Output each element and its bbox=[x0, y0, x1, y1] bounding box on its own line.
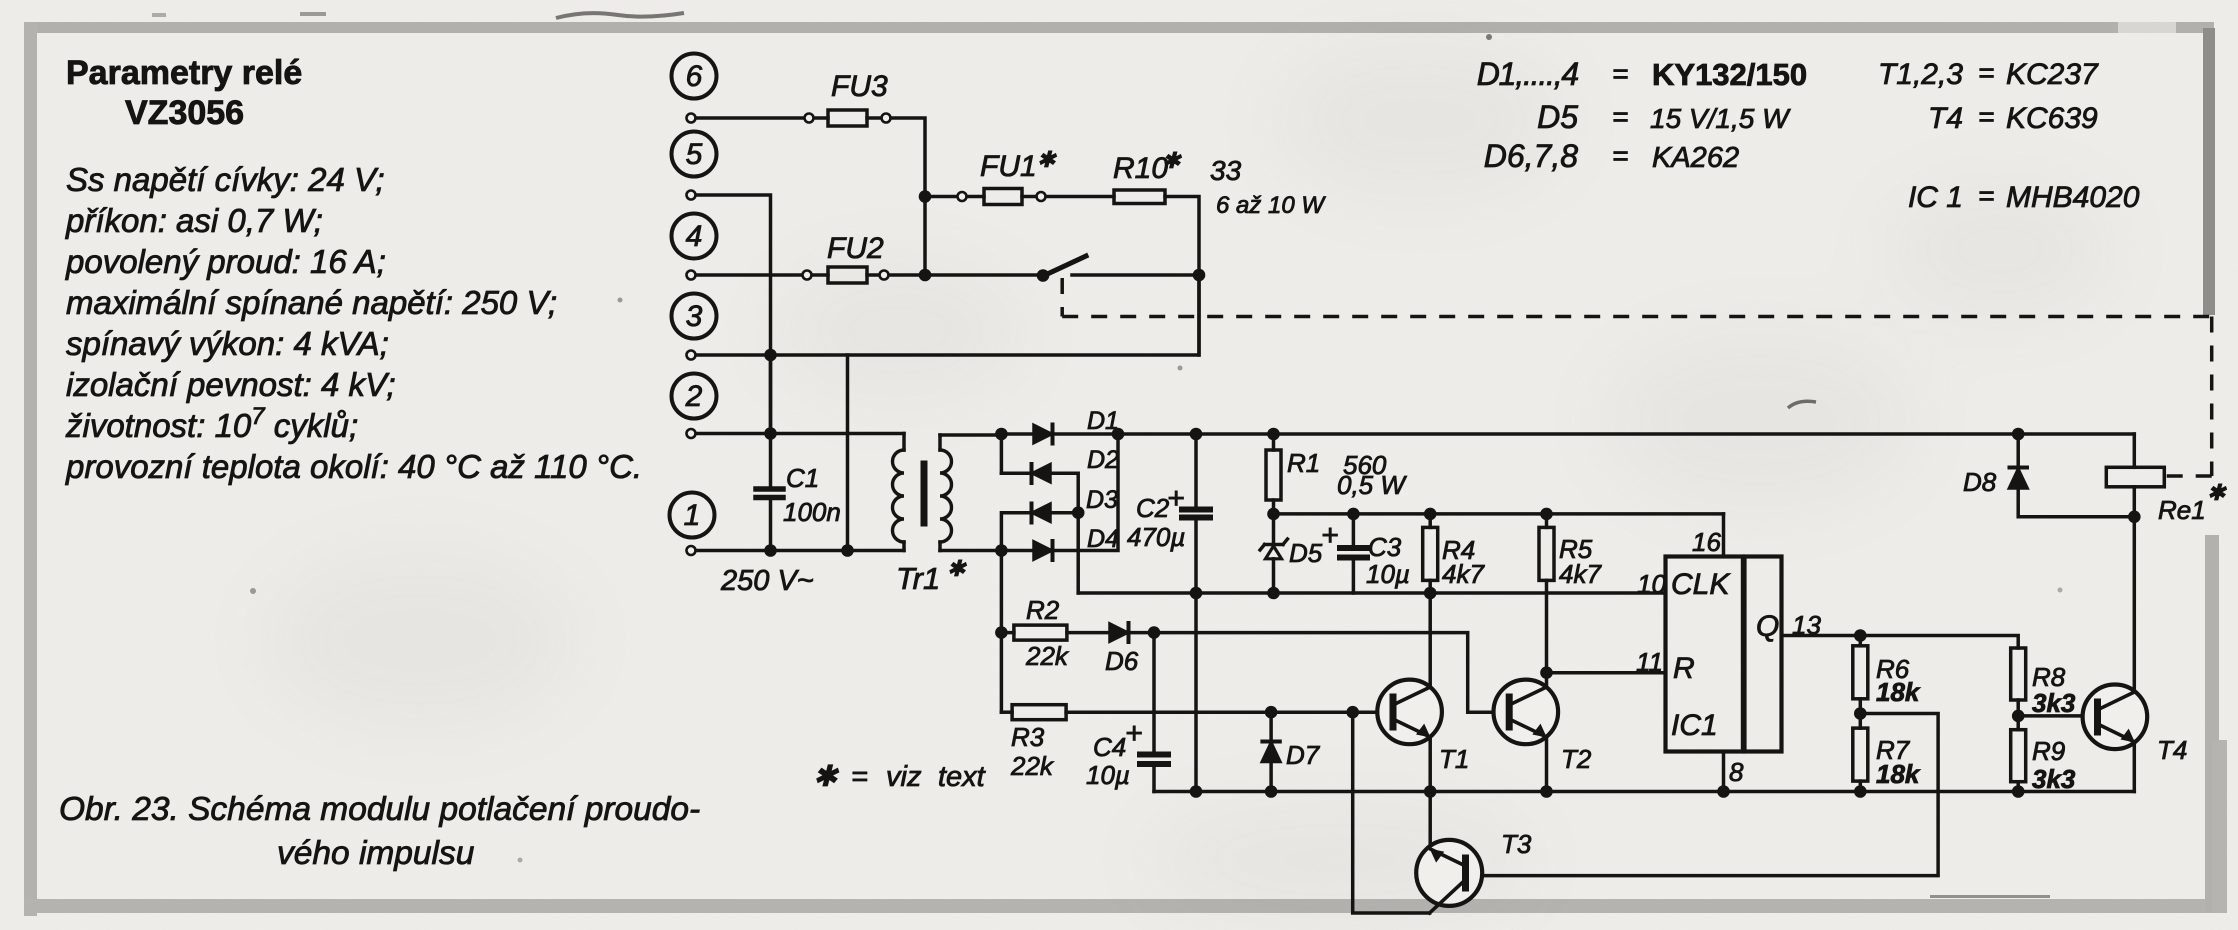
wire C2 node down to ground rail bbox=[1194, 593, 1198, 792]
svg-text:C2: C2 bbox=[1136, 493, 1170, 523]
wire FU3 to node, down to FU2 line bbox=[891, 118, 925, 275]
pin 6 bbox=[687, 114, 696, 123]
svg-text:izolační pevnost: 4 kV;: izolační pevnost: 4 kV; bbox=[66, 366, 396, 403]
IC1 Q output box bbox=[1745, 557, 1782, 752]
terminal 4 bbox=[672, 214, 717, 259]
transformer Tr1 primary bbox=[902, 434, 906, 551]
node: R4 bottom / CLK bbox=[1424, 587, 1437, 600]
svg-text:=: = bbox=[1978, 180, 1994, 211]
zener diode D5 bbox=[1272, 514, 1276, 544]
wire bridge minus node down to CLK rail bbox=[1076, 513, 1080, 593]
wire T1 emitter to ground and T3 emitter bbox=[1428, 737, 1432, 848]
wire D6 to T2 base corner bbox=[1130, 633, 1506, 713]
node: R6/R7 bbox=[1854, 707, 1867, 720]
node: FU2/switch line junction bbox=[919, 269, 932, 282]
dashed link switch to relay bbox=[1062, 278, 2212, 476]
svg-text:18k: 18k bbox=[1876, 759, 1921, 789]
node: T1 emitter ground bbox=[1424, 785, 1437, 798]
wire pin2 to transformer primary bbox=[696, 432, 904, 436]
transformer Tr1 secondary bbox=[938, 435, 942, 551]
svg-text:MHB4020: MHB4020 bbox=[2006, 181, 2140, 214]
svg-text:FU2: FU2 bbox=[827, 232, 884, 265]
svg-text:D3: D3 bbox=[1086, 486, 1118, 514]
svg-text:KA262: KA262 bbox=[1652, 142, 1739, 174]
svg-text:10: 10 bbox=[1637, 569, 1666, 599]
svg-text:FU3: FU3 bbox=[831, 70, 888, 103]
node: D2/D3 anodes bbox=[1072, 506, 1085, 519]
resistor R5 bbox=[1545, 514, 1549, 528]
node A secondary top bbox=[995, 428, 1008, 441]
svg-text:Obr. 23. Schéma modulu potlače: Obr. 23. Schéma modulu potlačení proudo- bbox=[59, 791, 700, 828]
svg-text:provozní teplota okolí: 40 °C: provozní teplota okolí: 40 °C až 110 °C. bbox=[65, 448, 642, 485]
pin 2 bbox=[687, 429, 696, 438]
scan frame right bar bbox=[2203, 28, 2215, 315]
transistor T3 (mirrored) bbox=[1416, 840, 1482, 906]
IC1 main box bbox=[1666, 557, 1743, 752]
svg-text:D8: D8 bbox=[1963, 467, 1997, 497]
ground rail bbox=[1154, 790, 2134, 794]
svg-text:4k7: 4k7 bbox=[1442, 559, 1485, 589]
dashed wire horizontal bbox=[1062, 315, 2212, 319]
Q output line pin 13 bbox=[1782, 636, 2019, 649]
switch blade bbox=[1043, 256, 1086, 276]
svg-text:VZ3056: VZ3056 bbox=[125, 94, 244, 132]
svg-text:KY132/150: KY132/150 bbox=[1652, 57, 1807, 92]
svg-text:FU1: FU1 bbox=[980, 150, 1037, 183]
capacitor C1 leads bbox=[769, 355, 773, 551]
diode D8 bbox=[2016, 434, 2020, 466]
svg-text:vého impulsu: vého impulsu bbox=[277, 835, 474, 872]
wire relay to T4 collector bbox=[2133, 517, 2137, 692]
+15V rail bbox=[1274, 512, 1724, 516]
wire secondary bottom to node B bbox=[940, 549, 1001, 553]
capacitor C1 plates bbox=[756, 486, 783, 492]
transistor T1 bbox=[1377, 680, 1442, 745]
node: D5 bottom bbox=[1267, 587, 1280, 600]
transistor T4 bbox=[2083, 685, 2148, 750]
wire R4 bottom down to T1 collector bbox=[1428, 593, 1432, 687]
svg-text:T1,2,3: T1,2,3 bbox=[1878, 58, 1963, 91]
wire pin1 to transformer primary bottom bbox=[696, 549, 904, 553]
diode D6 bbox=[1110, 624, 1127, 641]
svg-text:T2: T2 bbox=[1561, 744, 1592, 774]
svg-text:R3: R3 bbox=[1011, 722, 1045, 752]
capacitor C3 leads bbox=[1352, 514, 1356, 593]
diode D7 bbox=[1269, 712, 1273, 740]
node: C2 vert / ground bbox=[1190, 785, 1203, 798]
svg-text:Re1: Re1 bbox=[2158, 495, 2206, 525]
svg-text:3k3: 3k3 bbox=[2032, 764, 2076, 794]
svg-text:T1: T1 bbox=[1439, 744, 1469, 774]
resistor R2 bbox=[1001, 631, 1014, 635]
node: D7 bottom bbox=[1265, 785, 1278, 798]
svg-text:3: 3 bbox=[686, 300, 703, 333]
component list top right bbox=[1477, 56, 2140, 214]
pin 16 wire bbox=[1722, 514, 1726, 557]
svg-text:5: 5 bbox=[686, 138, 703, 171]
svg-text:C1: C1 bbox=[786, 463, 819, 493]
node: R1/D5 bbox=[1267, 508, 1280, 521]
wire pin6 to FU3 bbox=[696, 116, 805, 120]
dashed wire down right edge bbox=[2210, 317, 2214, 477]
terminal 6 bbox=[672, 54, 717, 99]
transformer Tr1 core bbox=[921, 464, 928, 523]
node: pin2 line / C1 top bbox=[764, 427, 777, 440]
svg-text:10µ: 10µ bbox=[1086, 760, 1130, 790]
node: pin5 line on y355 bbox=[764, 349, 777, 362]
resistor R10 bbox=[1114, 190, 1165, 204]
node: D7 top bbox=[1265, 706, 1278, 719]
caption Obr. 23 bbox=[59, 791, 700, 872]
node: D6 out / C4 top bbox=[1148, 626, 1161, 639]
node: switch pivot bbox=[1037, 269, 1050, 282]
svg-text:6: 6 bbox=[686, 60, 703, 93]
svg-text:T4: T4 bbox=[2157, 735, 2187, 765]
svg-text:22k: 22k bbox=[1025, 641, 1070, 671]
svg-text:D7: D7 bbox=[1286, 740, 1321, 770]
svg-text:+: + bbox=[1321, 519, 1339, 552]
svg-text:T4: T4 bbox=[1928, 102, 1963, 135]
svg-text:11: 11 bbox=[1636, 647, 1663, 677]
wire T3 branch: down from R3 line, right to T3 collector bbox=[1353, 712, 1430, 913]
svg-text:=: = bbox=[1612, 140, 1628, 171]
resistor R3 bbox=[1001, 710, 1012, 714]
svg-text:4: 4 bbox=[686, 220, 703, 253]
node: R4 top bbox=[1424, 508, 1437, 521]
svg-text:R10: R10 bbox=[1113, 152, 1168, 185]
node: switch return right bbox=[1193, 269, 1206, 282]
svg-text:C4: C4 bbox=[1093, 732, 1126, 762]
pin 1 bbox=[687, 546, 696, 555]
pin 4 bbox=[687, 271, 696, 280]
svg-text:+: + bbox=[1125, 717, 1143, 750]
terminal 5 bbox=[672, 132, 717, 177]
svg-text:15 V/1,5 W: 15 V/1,5 W bbox=[1650, 103, 1791, 134]
scan frame top bar bbox=[24, 22, 2214, 33]
node: R2 left bbox=[995, 626, 1008, 639]
svg-text:maximální spínané napětí: 250: maximální spínané napětí: 250 V; bbox=[66, 284, 557, 321]
diode D1 bbox=[1001, 432, 1034, 436]
svg-text:✱: ✱ bbox=[2207, 480, 2227, 505]
wire pin4 to FU2 bbox=[696, 273, 802, 277]
svg-text:✱: ✱ bbox=[1037, 147, 1057, 172]
wire secondary top to node A bbox=[940, 433, 1001, 437]
svg-text:4k7: 4k7 bbox=[1559, 559, 1602, 589]
dashed wire to relay bbox=[2165, 474, 2212, 478]
node: FU3/FU1 junction bbox=[919, 190, 932, 203]
svg-text:KC639: KC639 bbox=[2006, 102, 2098, 135]
wire node A down to D2 bbox=[1000, 434, 1004, 473]
wire R8/R9 node to T4 base bbox=[2018, 714, 2091, 718]
wire FU1 branch bbox=[925, 195, 957, 199]
wire R3 to T1 base bbox=[1066, 710, 1390, 714]
node: C1 bottom bbox=[764, 544, 777, 557]
CLK rail (bridge minus to IC pin 10) bbox=[1078, 591, 1665, 595]
wire R pin 11 bbox=[1547, 671, 1666, 675]
svg-text:životnost: 107 cyklů;: životnost: 107 cyklů; bbox=[65, 403, 358, 444]
svg-text:C3: C3 bbox=[1368, 532, 1402, 562]
svg-text:470µ: 470µ bbox=[1127, 522, 1185, 552]
terminal 1 bbox=[670, 493, 715, 538]
node: R1 top bbox=[1267, 428, 1280, 441]
svg-text:KC237: KC237 bbox=[2006, 58, 2099, 91]
svg-text:povolený proud: 16 A;: povolený proud: 16 A; bbox=[65, 243, 386, 280]
fuse FU1 bbox=[958, 192, 967, 201]
svg-text:R2: R2 bbox=[1026, 595, 1060, 625]
pin 8 wire bbox=[1722, 752, 1726, 792]
resistor R9 bbox=[2011, 730, 2026, 782]
svg-text:D5: D5 bbox=[1289, 538, 1323, 568]
svg-text:33: 33 bbox=[1210, 155, 1242, 186]
node: D8/relay/T4 collector bbox=[2128, 511, 2141, 524]
scan pen hook artifact bbox=[1788, 401, 1816, 408]
wire switch return: down, left to pin3 bbox=[696, 275, 1199, 355]
terminal 2 bbox=[672, 374, 717, 419]
svg-text:Q: Q bbox=[1756, 610, 1779, 643]
wire C4 bottom to ground rail bbox=[1152, 767, 1156, 792]
svg-text:T3: T3 bbox=[1501, 829, 1532, 859]
svg-text:18k: 18k bbox=[1876, 677, 1921, 707]
top rail from D1 to relay corner bbox=[1054, 432, 2134, 436]
svg-text:D2: D2 bbox=[1087, 446, 1119, 474]
svg-text:250 V~: 250 V~ bbox=[720, 565, 814, 597]
wire FU1 to R10 bbox=[1046, 195, 1114, 199]
svg-text:=: = bbox=[1612, 101, 1628, 132]
wire R6/R7 node to T3 base bbox=[1468, 714, 1938, 876]
svg-text:1: 1 bbox=[684, 499, 701, 532]
svg-text:16: 16 bbox=[1692, 527, 1721, 557]
node: D1/D4 cathodes bbox=[1112, 428, 1125, 441]
wire R10 right, corner down to switch line bbox=[1165, 197, 1199, 356]
resistor R1 bbox=[1272, 434, 1276, 450]
svg-text:=: = bbox=[1612, 58, 1628, 89]
svg-text:100n: 100n bbox=[783, 497, 841, 527]
node: C3 top bbox=[1347, 508, 1360, 521]
wire pin5 right and down bbox=[696, 195, 771, 429]
resistor R6 bbox=[1859, 636, 1863, 646]
wire T4 emitter to ground rail end bbox=[2133, 742, 2137, 792]
svg-text:D4: D4 bbox=[1087, 525, 1119, 553]
svg-text:spínavý výkon: 4 kVA;: spínavý výkon: 4 kVA; bbox=[66, 325, 389, 362]
svg-text:D1: D1 bbox=[1087, 407, 1119, 435]
pin 3 bbox=[687, 351, 696, 360]
node: R9 bottom bbox=[2012, 785, 2025, 798]
node: D8 top bbox=[2012, 428, 2025, 441]
svg-text:CLK: CLK bbox=[1671, 568, 1731, 601]
svg-text:R9: R9 bbox=[2032, 736, 2065, 766]
svg-text:13: 13 bbox=[1792, 610, 1821, 640]
scan frame bottom bar bbox=[24, 899, 2214, 913]
node: R8/R9 bbox=[2012, 710, 2025, 723]
scan specks bbox=[152, 12, 2063, 863]
terminal 3 bbox=[672, 294, 717, 339]
dashed wire from switch down bbox=[1060, 278, 1064, 317]
svg-text:D5: D5 bbox=[1537, 99, 1578, 135]
wire FU2 to switch bbox=[889, 273, 1043, 277]
svg-text:příkon: asi 0,7 W;: příkon: asi 0,7 W; bbox=[65, 202, 323, 239]
svg-text:10µ: 10µ bbox=[1366, 559, 1410, 589]
transistor T2 bbox=[1494, 680, 1559, 745]
fuse FU2 bbox=[803, 271, 812, 280]
svg-text:0,5 W: 0,5 W bbox=[1337, 470, 1407, 500]
svg-text:=: = bbox=[1978, 57, 1994, 88]
svg-text:Ss napětí cívky: 24 V;: Ss napětí cívky: 24 V; bbox=[66, 161, 385, 198]
diode D4 bbox=[1001, 549, 1034, 553]
svg-text:=: = bbox=[1978, 101, 1994, 132]
node: T3 branch bbox=[1346, 706, 1359, 719]
diode D3 bbox=[1001, 513, 1030, 551]
resistor R4 bbox=[1428, 514, 1432, 528]
resistor R8 bbox=[2011, 648, 2026, 700]
wire R5 down to T2 collector node bbox=[1545, 580, 1549, 687]
fuse FU3 bbox=[805, 114, 814, 123]
capacitor C3 plates bbox=[1340, 545, 1367, 551]
svg-text:IC1: IC1 bbox=[1671, 709, 1718, 742]
svg-text:8: 8 bbox=[1729, 757, 1744, 787]
parameter list bbox=[65, 161, 642, 485]
wire node B down / R2 R3 branch bbox=[1000, 551, 1004, 713]
scan artifact line bbox=[1930, 895, 2050, 898]
schematic labels bbox=[684, 60, 2227, 859]
svg-text:✱: ✱ bbox=[1162, 148, 1182, 173]
svg-text:R1: R1 bbox=[1287, 448, 1320, 478]
title: Parametry rele bbox=[66, 54, 302, 132]
scan pen mark artifact bbox=[556, 13, 684, 18]
svg-text:+: + bbox=[1167, 482, 1185, 515]
node: R7 bottom bbox=[1854, 785, 1867, 798]
diode D2 bbox=[1001, 471, 1030, 475]
svg-text:6 až 10 W: 6 až 10 W bbox=[1216, 192, 1326, 219]
scan mottling bbox=[260, 40, 2120, 920]
node: C2 bottom bbox=[1190, 587, 1203, 600]
svg-text:3k3: 3k3 bbox=[2032, 688, 2076, 718]
node: pin8 ground bbox=[1717, 785, 1730, 798]
capacitor C2 leads bbox=[1194, 434, 1198, 593]
switch right wire bbox=[1072, 273, 1199, 277]
svg-text:2: 2 bbox=[685, 380, 703, 413]
wire down to primary bottom bbox=[846, 355, 850, 551]
node: R6 top / Q line bbox=[1854, 629, 1867, 642]
node: C2 top bbox=[1190, 428, 1203, 441]
wire T2 emitter to ground bbox=[1545, 737, 1549, 792]
svg-text:IC 1: IC 1 bbox=[1908, 181, 1963, 214]
node: T2 emitter ground bbox=[1540, 785, 1553, 798]
svg-text:Parametry relé: Parametry relé bbox=[66, 54, 302, 92]
svg-text:Tr1: Tr1 bbox=[896, 561, 940, 596]
relay Re1 coil bbox=[2133, 434, 2137, 467]
svg-text:D1,....,4: D1,....,4 bbox=[1477, 56, 1579, 92]
capacitor C4 plates bbox=[1140, 752, 1168, 758]
svg-text:D6: D6 bbox=[1105, 646, 1139, 676]
node B secondary bottom bbox=[995, 544, 1008, 557]
svg-text:✱: ✱ bbox=[947, 556, 967, 581]
svg-text:D6,7,8: D6,7,8 bbox=[1484, 138, 1578, 174]
capacitor C2 plates bbox=[1182, 507, 1210, 513]
node: R5 top bbox=[1540, 508, 1553, 521]
pin 5 bbox=[687, 191, 696, 200]
svg-text:R: R bbox=[1673, 652, 1695, 685]
node: x847 vertical bottom bbox=[841, 544, 854, 557]
svg-text:22k: 22k bbox=[1010, 751, 1055, 781]
resistor R7 bbox=[1853, 728, 1868, 781]
scan frame left bar bbox=[24, 22, 37, 916]
wire D6 node down to C4 bbox=[1152, 633, 1156, 752]
node: R5 / T2 collector / R pin bbox=[1540, 666, 1553, 679]
